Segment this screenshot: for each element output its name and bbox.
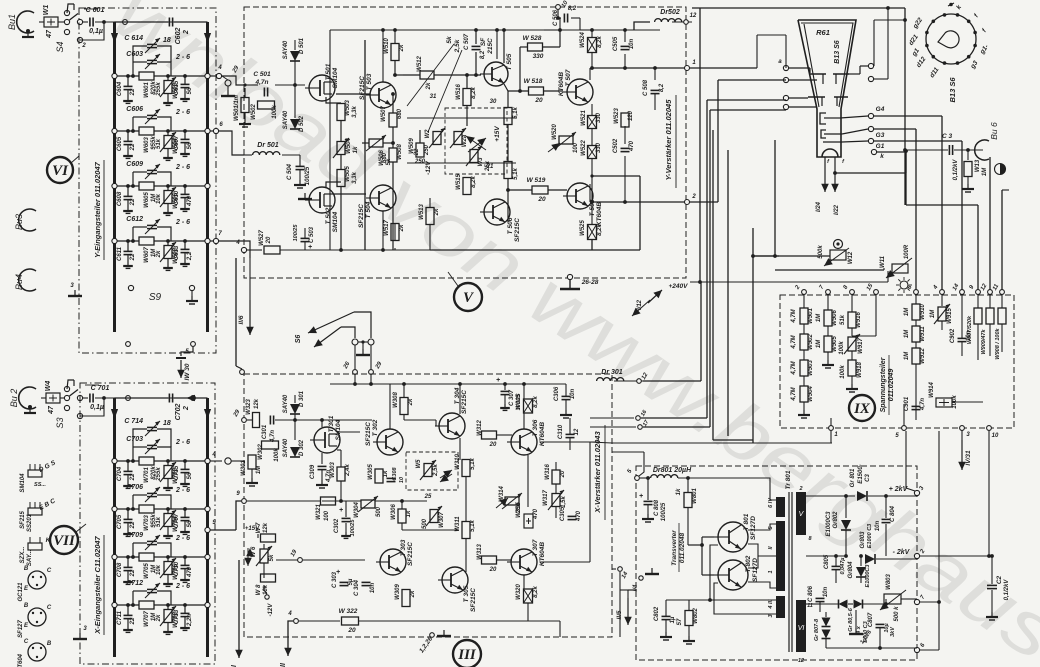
svg-text:f: f	[981, 27, 988, 33]
svg-text:W901: W901	[808, 308, 814, 324]
svg-text:11: 11	[992, 283, 1001, 292]
resistor W305 1k	[375, 469, 383, 483]
potentiometer W317 1,5k	[552, 494, 560, 507]
svg-text:W517: W517	[384, 220, 390, 236]
svg-text:500: 500	[422, 518, 428, 529]
svg-text:-12V: -12V	[268, 603, 274, 617]
svg-text:+: +	[336, 569, 340, 576]
svg-text:W 518: W 518	[524, 78, 543, 85]
wire heater to k	[833, 171, 837, 175]
roman V circle	[454, 283, 482, 311]
svg-text:W4: W4	[45, 381, 52, 392]
potentiometer W3 25k	[470, 150, 478, 163]
svg-text:+: +	[639, 493, 643, 500]
svg-text:W906: W906	[832, 310, 838, 326]
svg-text:T 501: T 501	[325, 63, 332, 80]
svg-text:D 301: D 301	[299, 390, 305, 407]
svg-text:E: E	[24, 586, 29, 592]
svg-text:C 806: C 806	[808, 585, 814, 602]
switch S4	[58, 21, 64, 23]
svg-text:Dr 301: Dr 301	[601, 369, 623, 376]
wire W503 chain	[340, 103, 342, 104]
svg-text:Bu 6: Bu 6	[989, 122, 999, 140]
capacitor C507 8,2	[475, 30, 477, 44]
svg-text:C702: C702	[175, 404, 182, 421]
terminal 4 wire X	[205, 458, 210, 463]
svg-text:VII: VII	[53, 533, 76, 549]
svg-text:0,047µ: 0,047µ	[840, 557, 846, 575]
svg-text:18: 18	[163, 420, 171, 427]
trimmer capacitor C612 2-6	[132, 227, 134, 241]
svg-text:C502: C502	[613, 138, 619, 153]
wires Y output stage	[544, 29, 560, 31]
svg-text:C: C	[24, 639, 29, 645]
wire 6 right	[920, 649, 939, 651]
wire arrow right	[204, 409, 211, 419]
svg-text:1k: 1k	[353, 146, 359, 153]
wire right column verticals lower	[904, 150, 906, 205]
wire bus right X	[206, 398, 209, 657]
wire top rail down right	[904, 8, 906, 150]
svg-text:SAY...: SAY...	[27, 549, 33, 566]
svg-text:1M: 1M	[904, 329, 910, 338]
svg-text:f: f	[973, 12, 980, 18]
terminal 9 long wire	[242, 499, 247, 504]
transformer primary winding bars	[776, 497, 785, 517]
svg-text:W524: W524	[580, 32, 586, 48]
capacitor C804 10n	[882, 518, 891, 520]
svg-text:2 - 6: 2 - 6	[175, 164, 190, 171]
svg-text:1: 1	[692, 60, 696, 66]
wire bus left Y	[113, 22, 116, 332]
svg-text:SAY40: SAY40	[283, 110, 289, 129]
svg-text:22: 22	[130, 617, 136, 625]
svg-text:4,7M: 4,7M	[791, 386, 797, 401]
svg-text:14: 14	[621, 571, 630, 580]
svg-text:3,3k: 3,3k	[352, 106, 358, 118]
resistor W13 1M	[967, 150, 969, 160]
svg-text:2 - 6: 2 - 6	[175, 487, 190, 494]
svg-text:100/25: 100/25	[350, 519, 356, 537]
diode Gr802 E1000C3	[845, 496, 847, 518]
svg-text:g22: g22	[911, 16, 924, 30]
ground transverter	[651, 568, 653, 574]
wire stage row X4	[115, 604, 140, 606]
svg-text:B13 S6: B13 S6	[948, 77, 957, 103]
svg-text:W915: W915	[947, 308, 953, 324]
svg-text:IX: IX	[853, 401, 871, 417]
svg-text:W525: W525	[580, 220, 586, 236]
svg-text:f: f	[842, 159, 845, 165]
wire vertical 939	[938, 431, 940, 602]
resistor chain W901-W904	[800, 308, 808, 324]
svg-text:g1-: g1-	[978, 43, 990, 56]
potentiometer W314 250	[505, 497, 519, 505]
svg-text:C 304: C 304	[354, 579, 360, 596]
svg-text:1µ: 1µ	[670, 616, 676, 623]
svg-text:W3: W3	[478, 157, 484, 167]
wire y-eing to top rail	[208, 21, 421, 23]
svg-text:21: 21	[486, 164, 494, 170]
svg-text:W311: W311	[455, 516, 461, 532]
resistor W519 20	[532, 186, 548, 194]
capacitor C3 0,1/2kV	[948, 145, 950, 155]
svg-text:C306: C306	[554, 386, 560, 401]
CRT right electrode terminals G4 G3 G1 k	[840, 116, 868, 118]
svg-text:470: 470	[629, 140, 635, 152]
svg-text:C 614: C 614	[124, 35, 143, 42]
inductor Dr301	[597, 378, 624, 381]
svg-text:4: 4	[287, 611, 292, 617]
svg-text:330: 330	[596, 142, 602, 153]
diode Gr801 E1500-C3	[806, 495, 855, 497]
svg-text:C902: C902	[950, 328, 956, 343]
svg-text:T 503: T 503	[366, 73, 373, 90]
svg-text:R61: R61	[816, 28, 830, 37]
arrow II/5	[627, 598, 629, 625]
capacitor C901 4,7n	[912, 405, 921, 407]
wire far right vertical 11	[1001, 190, 1003, 292]
svg-text:SF127: SF127	[18, 620, 24, 638]
wire y plate 2	[689, 201, 718, 203]
svg-text:C606: C606	[126, 106, 143, 113]
svg-text:15: 15	[866, 283, 875, 292]
half-filled disc symbol	[995, 164, 1006, 175]
svg-text:C604: C604	[117, 81, 123, 96]
wire pot row 163	[407, 162, 516, 164]
resistor W521 330 X	[588, 116, 597, 129]
svg-text:IW 30: IW 30	[184, 363, 191, 380]
svg-text:C704: C704	[117, 466, 123, 481]
capacitor C710 470	[184, 557, 186, 565]
svg-text:X-Eingangsteiler C11.02047: X-Eingangsteiler C11.02047	[93, 535, 102, 634]
resistor W509 250	[416, 143, 424, 157]
svg-text:+: +	[496, 377, 500, 384]
capacitor C902 10n	[958, 337, 967, 339]
wire stage row X2	[115, 508, 140, 510]
CRT left terminals	[783, 65, 788, 70]
svg-text:C710: C710	[174, 561, 180, 576]
svg-text:680: 680	[397, 108, 403, 119]
package GC121 circle	[28, 571, 46, 589]
svg-text:T 302: T 302	[372, 419, 379, 436]
svg-text:SAY40: SAY40	[283, 438, 289, 457]
svg-text:g1: g1	[910, 47, 921, 58]
svg-text:E B C: E B C	[38, 497, 57, 511]
svg-text:2,2n: 2,2n	[187, 614, 193, 627]
svg-text:5,1k: 5,1k	[513, 107, 519, 119]
svg-text:GC121: GC121	[18, 582, 24, 602]
terminal 10 on box top	[556, 5, 561, 10]
svg-text:W303: W303	[330, 462, 336, 478]
wire crt anode a	[756, 8, 760, 40]
svg-text:SZX...: SZX...	[20, 546, 26, 563]
svg-text:3: 3	[966, 432, 970, 438]
wire S3 lower	[80, 398, 104, 416]
svg-text:C707: C707	[174, 513, 180, 528]
svg-text:S6: S6	[295, 335, 302, 344]
svg-text:2k: 2k	[156, 250, 162, 258]
capacitor C711 22	[127, 605, 129, 615]
svg-text:29: 29	[374, 361, 383, 371]
trimmer capacitor C706 2-6	[132, 495, 134, 509]
svg-text:20: 20	[347, 627, 356, 634]
svg-text:C310: C310	[558, 424, 564, 439]
svg-text:250: 250	[424, 144, 430, 156]
wire T801 T802 bases	[702, 536, 714, 538]
resistor W908 100k	[1001, 302, 1003, 308]
resistor W909 47k	[989, 302, 991, 308]
diode D502 SAY40	[294, 105, 296, 118]
svg-text:10n: 10n	[823, 586, 829, 597]
svg-text:57: 57	[677, 618, 683, 625]
svg-text:I/24: I/24	[816, 201, 822, 212]
svg-text:II/6: II/6	[238, 315, 245, 324]
svg-text:B13 S6: B13 S6	[834, 40, 841, 63]
svg-text:C3: C3	[865, 474, 871, 482]
wire X output terminal 16	[590, 417, 634, 419]
svg-text:W11: W11	[880, 255, 886, 268]
transistor T301 SM104	[314, 427, 340, 453]
svg-text:I/12: I/12	[637, 299, 643, 310]
capacitor C604 22	[127, 76, 129, 86]
capacitor C2 0,1/2kV	[987, 584, 997, 586]
svg-text:8,2k: 8,2k	[597, 224, 603, 236]
wire bus left X	[113, 398, 116, 657]
resistor W311 5,1k	[462, 522, 470, 539]
wires transformer primary	[700, 477, 776, 479]
resistor W605 1M	[139, 182, 154, 190]
switch S3	[60, 397, 64, 399]
svg-text:W908 / 100k: W908 / 100k	[995, 327, 1001, 359]
wire X output row to divider terminal 1	[612, 442, 832, 444]
capacitor C806 10n	[816, 597, 825, 599]
svg-text:C607: C607	[174, 135, 180, 150]
arrow I bottom left	[238, 560, 240, 645]
trimmer capacitor C 714 18	[133, 429, 147, 461]
wire W527 C503 bottom	[241, 247, 246, 252]
svg-text:W317: W317	[543, 490, 549, 506]
potentiometer W520 100	[559, 136, 573, 144]
svg-text:2k: 2k	[156, 614, 162, 622]
svg-text:7: 7	[218, 231, 222, 237]
svg-text:G3: G3	[876, 132, 885, 139]
svg-text:22: 22	[414, 148, 420, 156]
wire W506 pot link	[341, 142, 369, 144]
svg-text:W516: W516	[456, 84, 462, 100]
wire G4 right	[874, 115, 942, 117]
svg-text:8,2k: 8,2k	[597, 36, 603, 48]
svg-text:T 307: T 307	[532, 539, 539, 556]
capacitor C611 22	[127, 241, 129, 251]
svg-text:1k: 1k	[383, 470, 389, 477]
svg-text:W903: W903	[808, 360, 814, 376]
resistor W316 20	[552, 470, 560, 484]
svg-text:W13: W13	[975, 159, 981, 172]
svg-text:51k: 51k	[156, 516, 162, 527]
capacitor C705 22	[127, 509, 129, 519]
resistor W320x 8,2k	[524, 589, 533, 603]
svg-text:1: 1	[834, 432, 838, 438]
svg-text:6 IV: 6 IV	[768, 497, 774, 508]
svg-text:C 507: C 507	[464, 33, 470, 50]
resistor W302 100k	[262, 441, 279, 449]
svg-text:30: 30	[490, 99, 497, 105]
svg-text:1M: 1M	[930, 309, 936, 318]
wire T501 source down	[326, 97, 341, 103]
svg-text:C 714: C 714	[124, 418, 143, 425]
svg-text:C305: C305	[560, 506, 566, 521]
svg-text:100: 100	[324, 510, 330, 521]
wire horizontals to spannungsteiler	[713, 439, 753, 441]
resistor W315x 8,2k	[524, 399, 533, 413]
svg-text:Dr502: Dr502	[660, 9, 680, 16]
svg-text:W512: W512	[417, 56, 423, 72]
svg-text:2k: 2k	[410, 590, 416, 598]
svg-text:470: 470	[187, 195, 193, 207]
svg-text:W601: W601	[144, 82, 150, 98]
svg-text:C711: C711	[117, 610, 123, 625]
diode Gr803 E1000C3	[865, 554, 875, 564]
ground 5 IW30 arrow	[181, 347, 193, 356]
svg-text:T 504: T 504	[365, 201, 372, 218]
wire 240V rail	[692, 239, 760, 241]
svg-text:W705: W705	[144, 563, 150, 579]
svg-text:W316: W316	[545, 464, 551, 480]
svg-text:1M: 1M	[256, 465, 262, 474]
svg-text:+: +	[339, 507, 343, 514]
resistor W517 5,1k	[504, 162, 512, 179]
svg-text:10n: 10n	[875, 520, 881, 531]
terminal 6 transverter	[914, 647, 919, 652]
svg-text:II: II	[768, 546, 774, 550]
resistor W707 1M	[139, 601, 154, 609]
svg-text:C 508: C 508	[643, 79, 649, 96]
block box X-Verstaerker	[244, 374, 612, 637]
svg-text:100k: 100k	[274, 448, 280, 462]
resistor W508 680	[389, 148, 397, 162]
svg-text:470: 470	[576, 510, 582, 522]
svg-text:SM104: SM104	[332, 67, 339, 88]
block box Y-Verstaerker	[244, 7, 686, 278]
svg-text:10: 10	[992, 433, 999, 439]
svg-text:Dr801 20µH: Dr801 20µH	[653, 467, 692, 474]
svg-text:B: B	[47, 641, 52, 647]
resistor W607 1M	[139, 237, 154, 245]
svg-text:C 804: C 804	[890, 505, 896, 522]
resistor W503 3,3k	[337, 104, 345, 121]
transistor T504 SF215C	[370, 185, 396, 211]
svg-text:C309: C309	[310, 464, 316, 479]
svg-text:W909/47k: W909/47k	[981, 329, 987, 355]
svg-text:4,7n: 4,7n	[920, 398, 926, 411]
svg-text:W2a: W2a	[462, 134, 468, 147]
CRT tube B13S6 outline	[798, 20, 856, 157]
svg-text:0,1/2kV: 0,1/2kV	[1004, 579, 1010, 601]
svg-text:C 808: C 808	[654, 499, 660, 516]
svg-text:Gr804: Gr804	[848, 561, 854, 579]
resistor W522 330 X	[588, 146, 597, 159]
wire x plate bottom	[710, 109, 786, 111]
svg-text:250: 250	[414, 159, 426, 165]
svg-text:KT604B: KT604B	[596, 202, 603, 227]
svg-text:VI: VI	[798, 625, 805, 632]
svg-text:B: B	[24, 603, 29, 609]
svg-text:C505: C505	[613, 36, 619, 51]
spannungsteiler terminals top	[802, 290, 807, 295]
capacitor C305 470	[568, 515, 577, 517]
svg-text:3: 3	[768, 614, 774, 617]
resistors W906 W905	[827, 302, 829, 310]
svg-text:W910: W910	[920, 304, 926, 320]
capacitor C306 10n	[562, 395, 571, 397]
svg-text:22: 22	[130, 473, 136, 481]
svg-text:W802: W802	[693, 608, 699, 624]
terminal 2 transverter	[914, 553, 919, 558]
svg-text:2 - 6: 2 - 6	[175, 54, 190, 61]
potentiometer W2 W2a cluster	[445, 108, 507, 174]
socket keyhole	[938, 31, 959, 48]
wire vertical bus 775	[774, 140, 776, 256]
wire Dr301 right	[648, 310, 740, 381]
svg-text:C609: C609	[126, 161, 143, 168]
svg-text:W315: W315	[516, 502, 522, 518]
svg-text:100R: 100R	[904, 244, 910, 259]
svg-text:SF127D: SF127D	[750, 516, 757, 540]
switch arrow S6 lower	[341, 327, 355, 338]
svg-text:5: 5	[895, 433, 899, 439]
svg-text:W527: W527	[259, 230, 265, 246]
svg-text:2: 2	[183, 30, 190, 35]
svg-text:W703: W703	[144, 515, 150, 531]
svg-text:C713: C713	[174, 609, 180, 624]
svg-text:C709: C709	[126, 532, 143, 539]
wire top to right bus	[115, 21, 208, 23]
svg-text:T 301: T 301	[328, 415, 335, 432]
capacitor C302 100/25	[342, 517, 351, 519]
svg-text:10n: 10n	[370, 582, 376, 593]
svg-text:3: 3	[83, 626, 87, 632]
potentiometer W506 5k	[369, 139, 383, 147]
resistor W309 2k	[402, 590, 410, 607]
svg-text:255k: 255k	[156, 82, 162, 97]
capacitor C307 100/25	[504, 384, 506, 390]
svg-text:W510: W510	[384, 38, 390, 54]
svg-text:Gr 80,5-6: Gr 80,5-6	[848, 607, 854, 631]
capacitor C708 22	[127, 557, 129, 567]
wire 14 terminal	[612, 568, 616, 570]
svg-text:14: 14	[952, 283, 961, 292]
svg-text:100/25: 100/25	[305, 166, 311, 185]
wire X top to right bus	[115, 397, 208, 399]
svg-text:W607: W607	[144, 247, 150, 263]
svg-text:5,1k: 5,1k	[513, 168, 519, 180]
svg-text:1: 1	[768, 570, 774, 573]
svg-text:SM104: SM104	[332, 211, 339, 232]
wire right columns down to transverter	[930, 440, 932, 470]
svg-text:S9: S9	[149, 292, 162, 303]
wire W12 row join	[753, 255, 779, 257]
transistor T508 KT604B	[567, 183, 593, 209]
svg-text:5k: 5k	[269, 554, 275, 561]
svg-text:g3: g3	[969, 59, 980, 70]
wire stage row Y1	[115, 75, 140, 77]
resistor W511 5,1k	[507, 91, 509, 108]
svg-text:W911: W911	[920, 326, 926, 342]
svg-text:2 - 6: 2 - 6	[175, 219, 190, 226]
svg-text:9: 9	[969, 284, 976, 290]
resistor W907 520k	[977, 302, 979, 308]
